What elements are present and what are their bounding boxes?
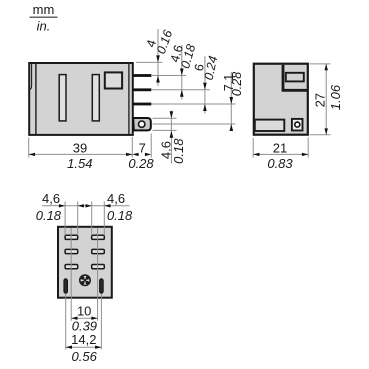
slot row3 left <box>65 265 78 269</box>
svg-text:0.18: 0.18 <box>36 208 62 223</box>
side view top-right square <box>105 72 122 88</box>
bottom pin right <box>100 279 104 293</box>
bottom pin left <box>64 279 68 293</box>
side view rear inner line <box>128 64 130 135</box>
extension lines 39/7 <box>29 134 152 158</box>
svg-text:27: 27 <box>312 93 327 107</box>
extension lines 21 <box>253 138 308 158</box>
svg-text:21: 21 <box>273 140 287 155</box>
side view body <box>29 63 133 135</box>
leader pin2 <box>152 89 210 91</box>
svg-text:0.56: 0.56 <box>72 349 98 364</box>
side view front bevel lines <box>30 64 36 135</box>
svg-text:0.18: 0.18 <box>171 138 186 164</box>
pin extension line left <box>65 279 67 350</box>
leader from body top <box>136 61 163 63</box>
svg-text:4,6: 4,6 <box>42 191 60 206</box>
dimension 4,6 left and right <box>36 191 133 223</box>
dimension 21/0.83 <box>253 140 308 171</box>
column center line left <box>70 228 72 321</box>
svg-text:10: 10 <box>77 303 91 318</box>
side view slot 1 <box>59 75 66 121</box>
end view bottom bar <box>255 120 284 131</box>
dimension 7/0.28 <box>128 140 154 171</box>
svg-text:0.18: 0.18 <box>107 208 133 223</box>
leader tab center <box>153 123 236 125</box>
slot row3 right <box>92 265 105 269</box>
dimension 4.6/0.18 tab width <box>158 111 186 164</box>
side view slot 2 <box>92 75 99 121</box>
svg-text:7: 7 <box>139 140 146 155</box>
dimension 7.1/0.28 <box>222 72 244 131</box>
leader tab top <box>153 117 177 119</box>
svg-text:0.83: 0.83 <box>267 156 293 171</box>
slot row1 right <box>92 235 105 239</box>
pin extension line right <box>100 279 102 350</box>
extension lines 4,6 top <box>65 202 104 236</box>
svg-text:1.06: 1.06 <box>328 84 343 110</box>
dimension 4/0.16 <box>144 28 176 86</box>
svg-text:39: 39 <box>73 140 87 155</box>
svg-text:4,6: 4,6 <box>107 191 125 206</box>
end view slot <box>286 73 304 82</box>
slot row2 left <box>65 249 78 253</box>
leader pin3 <box>152 103 236 105</box>
end view inner step <box>282 65 308 91</box>
svg-text:1.54: 1.54 <box>67 156 92 171</box>
svg-text:0.28: 0.28 <box>230 72 244 96</box>
pin 2 <box>133 88 152 91</box>
dimension 27/1.06 <box>312 64 343 135</box>
svg-text:0.28: 0.28 <box>128 156 154 171</box>
end view screw square <box>292 119 303 131</box>
leader pin1 <box>152 75 186 77</box>
extension lines 27 <box>310 64 331 135</box>
dimension 14,2/0.56 <box>66 332 102 364</box>
leader tab bottom <box>153 129 177 131</box>
slot row2 right <box>92 249 105 253</box>
svg-text:mm: mm <box>33 2 55 17</box>
svg-text:in.: in. <box>37 19 51 34</box>
slot row1 left <box>65 235 78 239</box>
rivet logo <box>80 275 90 285</box>
dimension 10/0.39 <box>71 303 97 333</box>
legend mm/in <box>30 2 58 34</box>
pin 1 <box>133 74 152 77</box>
svg-text:14,2: 14,2 <box>71 332 96 347</box>
dimension 4.6/0.18 pins <box>168 43 199 100</box>
dimension 6/0.24 <box>192 55 221 114</box>
column center line right <box>97 228 99 321</box>
pin 3 <box>133 103 152 106</box>
faston tab <box>133 118 151 130</box>
dimension 39/1.54 <box>29 140 133 171</box>
end view body <box>254 64 308 135</box>
bottom view body <box>58 227 112 298</box>
